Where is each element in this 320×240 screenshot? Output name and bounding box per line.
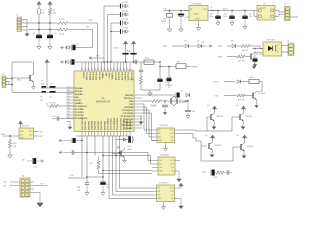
capacitor C28	[86, 177, 88, 182]
svg-text:TDI/TCLK: TDI/TCLK	[124, 98, 134, 100]
net arrow	[89, 57, 91, 60]
capacitor C22	[217, 11, 219, 16]
wire bus to U5	[142, 103, 144, 105]
wire loop	[11, 62, 13, 92]
capacitor C18	[164, 101, 166, 105]
svg-text:C9: C9	[40, 97, 42, 99]
svg-text:XIN: XIN	[75, 97, 79, 99]
svg-text:100u: 100u	[223, 16, 227, 18]
capacitor C6	[108, 14, 120, 16]
wire right bus	[142, 100, 152, 102]
connector J3	[285, 7, 291, 21]
ground	[38, 38, 40, 43]
svg-text:XOUT: XOUT	[108, 73, 110, 80]
diode D6	[232, 44, 235, 47]
ground	[69, 125, 71, 127]
capacitor C15	[159, 62, 161, 78]
net arrow	[59, 151, 61, 154]
svg-text:P3.4/UTXD0: P3.4/UTXD0	[116, 117, 119, 130]
svg-text:C6 104: C6 104	[122, 11, 128, 13]
ground	[86, 190, 88, 193]
wire	[282, 45, 289, 47]
svg-text:U8 DS1: U8 DS1	[22, 126, 30, 128]
resistor R13	[249, 79, 259, 83]
svg-text:C5 104: C5 104	[122, 2, 128, 4]
svg-text:MIC1: MIC1	[17, 80, 22, 82]
svg-text:VREF: VREF	[192, 67, 198, 69]
ground	[242, 124, 244, 127]
ground	[175, 198, 182, 200]
svg-text:104: 104	[192, 111, 195, 113]
svg-text:R2 1K: R2 1K	[59, 19, 65, 21]
crystal Y1	[41, 87, 74, 89]
svg-text:IN2: IN2	[158, 133, 161, 135]
svg-text:10u: 10u	[165, 82, 168, 84]
svg-text:R15: R15	[90, 163, 93, 165]
wire supply bus	[103, 6, 105, 62]
svg-text:P6.2/A2: P6.2/A2	[75, 93, 83, 96]
ground	[198, 21, 200, 25]
svg-text:R16: R16	[13, 143, 16, 145]
wire	[275, 9, 279, 11]
svg-text:XIN: XIN	[104, 73, 106, 77]
piezo LS1	[116, 139, 128, 141]
svg-text:OUT: OUT	[29, 135, 33, 137]
svg-text:IN1: IN1	[159, 160, 162, 162]
svg-text:Q3: Q3	[207, 105, 210, 107]
svg-text:64: 64	[68, 102, 70, 104]
net arrow	[59, 139, 61, 142]
svg-text:Q2 9013: Q2 9013	[258, 93, 265, 95]
capacitor C8	[111, 31, 120, 33]
ground	[211, 152, 213, 155]
svg-text:IN3: IN3	[159, 167, 162, 169]
capacitor C26	[71, 138, 73, 143]
svg-text:P4.7/TBCLK: P4.7/TBCLK	[81, 118, 84, 130]
svg-text:L1: L1	[210, 7, 212, 9]
capacitor C10	[134, 60, 136, 64]
svg-text:C21: C21	[186, 17, 189, 19]
svg-text:P6.5/A5: P6.5/A5	[92, 73, 95, 81]
svg-text:Q4: Q4	[236, 105, 239, 107]
svg-text:IN2: IN2	[158, 191, 161, 193]
connector J5 JTAG	[20, 178, 30, 197]
svg-text:2N7002: 2N7002	[247, 146, 254, 148]
svg-text:C8 104: C8 104	[122, 28, 128, 30]
ground	[244, 24, 246, 27]
wire	[34, 131, 39, 133]
svg-text:61: 61	[68, 93, 70, 95]
svg-text:U6 ULN20: U6 ULN20	[160, 155, 170, 157]
svg-text:SCL: SCL	[20, 135, 23, 137]
svg-text:IN1: IN1	[158, 130, 161, 132]
svg-text:U4 PC817: U4 PC817	[266, 40, 276, 42]
transistor Q1	[250, 54, 252, 60]
svg-text:VREF+: VREF+	[101, 73, 103, 81]
svg-text:P3.3/UCLK0: P3.3/UCLK0	[120, 117, 122, 130]
svg-text:32.768K: 32.768K	[179, 102, 187, 104]
svg-text:P6.3/A3: P6.3/A3	[85, 73, 88, 81]
wire	[210, 10, 258, 12]
svg-text:C8: C8	[50, 83, 52, 85]
svg-text:IN1: IN1	[158, 188, 161, 190]
svg-text:U5 24C02: U5 24C02	[159, 125, 169, 127]
capacitor C31	[32, 158, 34, 164]
svg-text:2N7002: 2N7002	[215, 145, 222, 147]
capacitor C29	[102, 177, 104, 181]
resistor R4	[144, 60, 154, 64]
svg-text:OUT: OUT	[170, 133, 174, 135]
ground	[124, 13, 126, 17]
capacitor C1	[37, 34, 42, 36]
wire	[99, 173, 153, 175]
svg-text:LS1: LS1	[128, 146, 131, 148]
svg-text:P6.0/A0: P6.0/A0	[75, 87, 83, 90]
svg-text:P4.0/TB0: P4.0/TB0	[103, 120, 106, 130]
IC U8 EEPROM	[19, 128, 34, 139]
svg-text:C17 104: C17 104	[165, 85, 173, 87]
svg-text:P3.2/SOMI0: P3.2/SOMI0	[124, 118, 126, 130]
svg-text:2N7002: 2N7002	[246, 116, 253, 118]
svg-text:LM317: LM317	[194, 14, 200, 16]
svg-text:U7 ULN20: U7 ULN20	[159, 183, 169, 185]
svg-text:R11 1K: R11 1K	[242, 50, 249, 52]
svg-text:P4.3/TB3: P4.3/TB3	[94, 120, 97, 130]
resistor R15	[98, 156, 100, 162]
svg-text:P2.2/CAOUT: P2.2/CAOUT	[121, 115, 134, 118]
svg-text:SCL: SCL	[40, 132, 44, 134]
svg-text:TMS: TMS	[129, 101, 134, 103]
IC U5	[157, 128, 175, 143]
svg-text:C7 104: C7 104	[122, 19, 128, 21]
svg-text:P4.4/TB4: P4.4/TB4	[91, 120, 94, 130]
ground	[187, 113, 189, 116]
svg-text:IN3: IN3	[158, 195, 161, 197]
resistor R7	[176, 64, 186, 69]
svg-text:P1.3/TA2: P1.3/TA2	[75, 114, 84, 117]
svg-text:P6.7/A7: P6.7/A7	[98, 73, 101, 81]
svg-text:TDO: TDO	[3, 182, 7, 184]
ground	[124, 4, 126, 8]
ground	[33, 84, 35, 87]
svg-text:P1.0/TACLK: P1.0/TACLK	[75, 105, 87, 108]
svg-text:C18: C18	[152, 106, 155, 108]
svg-text:RTS: RTS	[214, 82, 219, 84]
ground	[124, 21, 126, 25]
svg-text:GND: GND	[195, 19, 200, 21]
ground	[141, 115, 142, 117]
wire bus to U6	[87, 152, 148, 154]
svg-text:60: 60	[68, 90, 70, 92]
svg-text:Q6: Q6	[236, 135, 239, 137]
svg-text:R 10: R 10	[213, 177, 217, 179]
svg-text:RXD: RXD	[218, 46, 223, 48]
power	[46, 60, 48, 64]
svg-text:C28: C28	[77, 187, 80, 189]
capacitor C12	[56, 116, 58, 120]
resistor R10	[152, 99, 161, 102]
ground	[102, 190, 104, 193]
wire	[233, 146, 241, 148]
wire	[164, 10, 190, 12]
svg-text:XOUT: XOUT	[75, 100, 82, 102]
svg-text:59: 59	[68, 87, 70, 89]
diode D1	[61, 46, 63, 49]
svg-text:2N7002: 2N7002	[217, 116, 224, 118]
wire	[103, 170, 152, 172]
MCU top pins	[81, 62, 83, 71]
wire TST	[72, 29, 93, 31]
svg-text:R5 100: R5 100	[50, 103, 56, 105]
ground	[9, 152, 11, 155]
capacitor C24	[244, 11, 246, 16]
ground	[256, 100, 258, 104]
wire VREF	[160, 66, 176, 68]
resistor R11	[241, 44, 250, 47]
ground	[254, 61, 256, 65]
connector J4	[288, 43, 294, 56]
svg-text:P3.7/URXD1: P3.7/URXD1	[108, 117, 110, 130]
ground	[217, 20, 219, 23]
svg-text:67: 67	[68, 111, 70, 113]
ground	[26, 31, 28, 34]
connector J1	[17, 17, 22, 31]
svg-text:P4.6/TB6: P4.6/TB6	[84, 120, 87, 130]
svg-text:Q5: Q5	[205, 135, 208, 137]
power +9V	[38, 2, 40, 6]
svg-text:Q1 9013: Q1 9013	[256, 54, 263, 56]
MCU bottom pins	[81, 132, 83, 137]
svg-text:10u: 10u	[106, 187, 109, 189]
svg-text:CTS: CTS	[214, 96, 219, 98]
svg-text:TCK: TCK	[129, 104, 134, 106]
svg-text:100uH: 100uH	[222, 8, 228, 10]
capacitor C25	[254, 49, 256, 58]
svg-text:Y2: Y2	[179, 99, 181, 101]
wire RST	[72, 22, 98, 24]
svg-text:TDO/TDI: TDO/TDI	[125, 95, 134, 97]
wire	[94, 136, 96, 156]
svg-text:AVCC: AVCC	[127, 50, 133, 53]
svg-text:VeREF+: VeREF+	[75, 103, 84, 105]
svg-text:P4.1/TB1: P4.1/TB1	[100, 120, 103, 130]
svg-text:66: 66	[68, 108, 70, 110]
svg-text:P4.2/TB2: P4.2/TB2	[97, 120, 100, 130]
svg-text:D6: D6	[231, 41, 233, 43]
capacitor C21	[180, 11, 182, 15]
svg-text:63: 63	[68, 99, 70, 101]
svg-text:IN3: IN3	[158, 137, 161, 139]
svg-text:OUT: OUT	[170, 191, 174, 193]
capacitor C23	[231, 11, 233, 16]
svg-text:P4.5/TB5: P4.5/TB5	[87, 120, 90, 130]
svg-text:22p: 22p	[40, 99, 43, 101]
power VCC	[49, 2, 51, 6]
ground	[164, 110, 166, 112]
ground	[254, 62, 256, 64]
crystal Y2	[171, 97, 176, 106]
svg-text:P5.6/TB: P5.6/TB	[117, 73, 119, 81]
LED D5	[198, 44, 201, 47]
svg-text:65: 65	[68, 105, 70, 107]
ground	[124, 158, 126, 161]
wire	[232, 116, 240, 118]
resistor R16	[9, 136, 11, 140]
capacitor C27	[71, 150, 73, 154]
svg-text:DVCC: DVCC	[82, 73, 84, 79]
svg-text:VeREF+: VeREF+	[111, 73, 113, 82]
svg-text:P5.5/TB: P5.5/TB	[120, 73, 122, 81]
wire	[141, 89, 160, 91]
diode D2	[66, 60, 69, 63]
svg-text:104: 104	[249, 16, 252, 18]
regulator U2	[189, 6, 208, 21]
svg-text:R14 4K7: R14 4K7	[238, 100, 245, 102]
svg-text:DC/DC: DC/DC	[260, 8, 266, 10]
power	[175, 187, 182, 189]
svg-text:IN2: IN2	[159, 164, 162, 166]
svg-text:C1: C1	[33, 33, 35, 35]
net arrow	[41, 160, 43, 163]
net arrow VCC	[61, 61, 63, 64]
resistor R12	[237, 55, 245, 58]
resistor R1	[48, 8, 51, 15]
capacitor C20	[169, 11, 171, 14]
svg-text:P1.1/TA0: P1.1/TA0	[75, 108, 84, 111]
optocoupler U4	[263, 42, 282, 56]
svg-text:62: 62	[68, 96, 70, 98]
svg-text:22p: 22p	[49, 97, 52, 99]
wire	[102, 136, 104, 177]
svg-text:P2.1/TAIN: P2.1/TAIN	[123, 112, 133, 115]
svg-text:P3.5/URXD0: P3.5/URXD0	[114, 117, 116, 130]
svg-text:P5.7/TB: P5.7/TB	[114, 73, 116, 81]
capacitor C4	[71, 45, 73, 51]
svg-text:R12 4K7: R12 4K7	[238, 61, 245, 63]
svg-text:TDI: TDI	[3, 185, 6, 187]
net arrow	[210, 45, 212, 48]
svg-text:P3.6/UTXD1: P3.6/UTXD1	[111, 117, 113, 130]
inductor L1	[37, 8, 41, 15]
svg-text:104: 104	[77, 190, 80, 192]
ground	[49, 38, 51, 43]
svg-text:X2: X2	[46, 104, 48, 106]
ground	[30, 192, 40, 194]
transistor Q2	[252, 93, 254, 99]
ground	[165, 143, 167, 146]
capacitor C9	[70, 59, 72, 65]
power	[20, 122, 22, 126]
svg-text:C 0.1: C 0.1	[33, 167, 37, 169]
ground	[149, 90, 151, 93]
svg-text:100uF: 100uF	[161, 21, 166, 23]
MCU right pins	[134, 94, 142, 96]
ground	[178, 176, 180, 179]
svg-text:D5: D5	[117, 148, 119, 150]
svg-text:DVCC: DVCC	[114, 48, 120, 50]
IC U7	[157, 185, 175, 202]
MCU U1 MSP430	[74, 71, 134, 132]
transistor Q7	[33, 62, 35, 74]
ground	[231, 20, 233, 23]
svg-text:P1.2/TA1: P1.2/TA1	[75, 111, 84, 114]
svg-text:R3 1K: R3 1K	[59, 34, 65, 36]
MCU left pins	[66, 87, 74, 89]
svg-text:C4: C4	[76, 44, 78, 46]
resistor R5	[50, 104, 58, 107]
power AVCC	[133, 42, 135, 46]
svg-text:P2.0/ACLK: P2.0/ACLK	[122, 109, 133, 112]
diode D7	[237, 80, 240, 83]
svg-text:P5.4/MC: P5.4/MC	[124, 73, 127, 82]
svg-text:P6.4/A4: P6.4/A4	[88, 73, 91, 81]
svg-text:MSP430F149: MSP430F149	[96, 102, 111, 104]
capacitor C17	[168, 67, 170, 78]
resistor R2	[58, 21, 68, 24]
capacitor C5	[104, 5, 120, 7]
wire bus to U7	[108, 136, 110, 199]
wire	[200, 141, 202, 161]
power DVCC	[125, 42, 127, 46]
svg-text:C2: C2	[54, 33, 56, 35]
wire	[206, 117, 208, 131]
svg-text:RST/NMI: RST/NMI	[124, 107, 133, 109]
svg-text:P6.6/A6: P6.6/A6	[95, 73, 98, 81]
svg-text:U2 LM2937: U2 LM2937	[192, 4, 203, 6]
capacitor C19	[187, 101, 189, 111]
svg-text:R8 2M: R8 2M	[129, 79, 135, 81]
ground	[180, 26, 182, 29]
ground	[243, 153, 245, 156]
resistor R3	[58, 28, 68, 31]
wire	[86, 136, 88, 177]
capacitor C2	[48, 34, 53, 36]
connector J2	[2, 76, 6, 88]
buzzer LS1	[142, 94, 175, 96]
resistor R6	[140, 73, 142, 77]
diode D4	[185, 44, 188, 47]
svg-text:P3.0/STE0: P3.0/STE0	[130, 119, 132, 130]
svg-text:68: 68	[68, 114, 70, 116]
svg-text:TXD: TXD	[163, 46, 168, 48]
ground	[169, 26, 171, 29]
svg-text:DTR: DTR	[218, 57, 223, 59]
wire	[180, 129, 197, 131]
ground	[163, 202, 165, 205]
wire bottom bus	[76, 135, 130, 137]
IC U3	[257, 6, 275, 21]
resistor R14	[237, 94, 245, 97]
ground	[124, 30, 126, 34]
svg-text:R13: R13	[250, 77, 253, 79]
ground	[213, 124, 215, 127]
svg-text:Y1: Y1	[41, 81, 43, 83]
IC U6	[158, 157, 175, 175]
wire	[28, 22, 58, 24]
svg-text:P3.1/SIMO0: P3.1/SIMO0	[127, 118, 129, 130]
capacitor C7	[111, 22, 120, 24]
svg-text:D4: D4	[184, 41, 186, 43]
wire VCC rail	[70, 61, 160, 63]
svg-text:100u: 100u	[209, 16, 213, 18]
svg-text:P6.1/A1: P6.1/A1	[75, 90, 83, 93]
svg-text:C7 104: C7 104	[128, 70, 134, 72]
capacitor C14	[140, 62, 142, 70]
svg-text:OUT: OUT	[170, 164, 174, 166]
svg-text:D5: D5	[197, 41, 199, 43]
